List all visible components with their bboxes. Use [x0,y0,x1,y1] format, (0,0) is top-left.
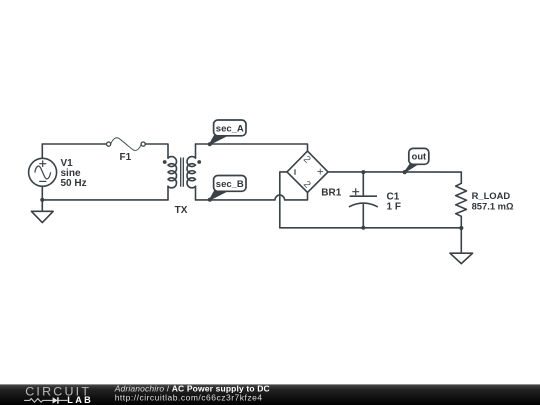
fuse wavy element [111,138,142,151]
node flag sec_A [208,120,246,146]
plus mark [352,188,359,195]
svg-text:sec_A: sec_A [216,124,244,135]
primary dot [163,160,167,164]
fuse F1 [107,138,146,163]
V1 plus sign [39,160,46,167]
curved bottom plate [349,203,378,207]
wire bottom rail V1 to primary [42,199,168,201]
capacitor C1 [349,170,401,230]
logo resistor+diode line [24,399,52,403]
wire bridge plus corner to out rail [328,171,461,173]
svg-text:1 F: 1 F [387,201,401,212]
junction dot at V1 ground node [40,198,44,202]
svg-text:50 Hz: 50 Hz [61,178,87,189]
fuse left terminal [107,142,111,146]
svg-text:LAB: LAB [67,395,93,405]
fuse right terminal [141,142,145,146]
primary coil [168,157,177,188]
wire secondary bottom lead [195,186,197,200]
svg-text:sec_B: sec_B [216,179,244,190]
logo diode [53,397,58,403]
wire V1 bottom lead [41,186,43,200]
svg-text:out: out [412,152,426,162]
ground symbol left [31,200,53,223]
svg-text:+: + [317,167,324,179]
svg-text:F1: F1 [120,152,132,163]
wire primary bottom lead [167,186,169,200]
voltage source V1 [29,144,87,200]
svg-text:857.1 mΩ: 857.1 mΩ [472,200,514,211]
secondary dot [197,160,201,164]
transformer TX [163,144,201,216]
core lines [181,158,184,187]
wire bridge minus corner left and down to bottom rail [280,172,287,228]
wire secondary top lead [195,144,197,158]
resistor R_LOAD [456,172,514,228]
svg-text:TX: TX [175,205,188,216]
V1 minus sign [39,180,46,182]
wire bottom rail to R_LOAD [280,227,462,229]
wire V1 top lead [41,144,43,158]
ground symbol right [450,228,473,264]
top plate [350,195,377,197]
node flag out [403,148,429,174]
svg-text:BR1: BR1 [321,187,341,198]
V1 sine glyph [35,166,51,179]
pin label - (left) [294,169,296,175]
wire sec_B rail: secondary bottom to bridge bottom, hop over vertical [196,192,308,200]
wire sec_A rail: secondary top to bridge top [196,144,308,151]
junction dots [361,170,365,174]
svg-text:http://circuitlab.com/c66cz3r7: http://circuitlab.com/c66cz3r7kfze4 [115,392,263,402]
bridge rectifier BR1 [287,151,342,198]
V1 circle body [29,158,57,186]
secondary coil [187,157,196,188]
wire fuse to transformer primary [145,144,168,158]
junction dot at R_LOAD bottom [459,226,463,230]
footer bar [0,383,540,405]
node flag sec_B [208,176,246,202]
wire top rail V1 to fuse [42,143,106,145]
